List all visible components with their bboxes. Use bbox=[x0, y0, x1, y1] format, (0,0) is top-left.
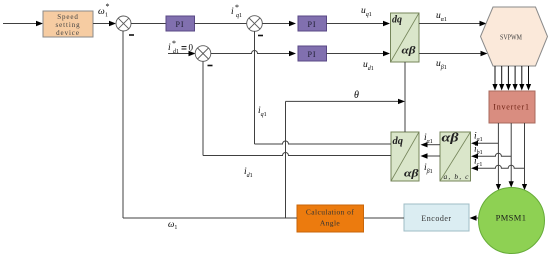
wire Encoder to Calculation of Angle bbox=[364, 217, 405, 219]
wire phase a from inverter to PMSM bbox=[496, 123, 501, 190]
label ia1 bbox=[474, 132, 483, 144]
wire ic1 tap to abc block with hops bbox=[471, 165, 525, 171]
svg-text:setting: setting bbox=[56, 21, 81, 29]
label i-beta1 bbox=[424, 163, 433, 175]
block: Encoder bbox=[404, 204, 469, 231]
wire speed feedback vertical to J1 bbox=[122, 31, 124, 218]
minus sign at J1 bbox=[129, 34, 134, 36]
wire J3 to PI3 with hop over iq1 feedback bbox=[211, 51, 296, 57]
wire ib1 tap to abc block with hop bbox=[471, 153, 511, 159]
svg-text:device: device bbox=[56, 29, 80, 37]
block: Speed setting device bbox=[43, 11, 93, 37]
label ua1 bbox=[436, 11, 447, 23]
label iq1 bbox=[258, 106, 267, 118]
minus sign at J3 bbox=[208, 65, 213, 67]
svg-text:Calculation of: Calculation of bbox=[306, 208, 354, 217]
label ib1 bbox=[474, 145, 483, 157]
wire input to speed setting device bbox=[3, 21, 43, 26]
svg-text:αβ: αβ bbox=[402, 46, 417, 57]
svg-text:0: 0 bbox=[189, 43, 194, 53]
wire PMSM to Encoder bbox=[470, 215, 479, 220]
label w1* bbox=[98, 2, 110, 19]
summing junction J3 bbox=[195, 46, 211, 62]
svg-text:PI: PI bbox=[307, 50, 316, 59]
wire i-beta between abc block and dq block bbox=[421, 153, 441, 158]
block: Calculation of Angle bbox=[297, 205, 364, 232]
wire theta riser from angle output bbox=[285, 101, 287, 218]
wire i-alpha between abc block and dq block bbox=[421, 142, 441, 147]
wire id1* input to junction J3 bbox=[168, 51, 196, 56]
label ub1 bbox=[436, 59, 447, 71]
wire PI2 to dq block (uq1) bbox=[327, 21, 391, 26]
wire speed feedback horizontal bbox=[123, 217, 297, 219]
label ic1 bbox=[474, 157, 482, 169]
wire id1 feedback horizontal with hop bbox=[203, 153, 391, 156]
svg-text:Speed: Speed bbox=[57, 13, 79, 21]
vertical theta wire between dq blocks bbox=[404, 62, 406, 132]
summing junction J2 bbox=[247, 16, 263, 32]
label i-alpha1 bbox=[424, 133, 433, 145]
block: PI controller 1 bbox=[166, 16, 195, 31]
label ud1 bbox=[363, 60, 374, 72]
wire phase b from inverter to PMSM bbox=[509, 123, 514, 188]
block: PI controller 3 bbox=[298, 46, 327, 61]
block: alpha-beta to dq current transform U2 bbox=[391, 132, 419, 181]
svg-text:dq: dq bbox=[392, 15, 402, 26]
minus sign at J2 bbox=[258, 35, 263, 37]
svg-text:αβ: αβ bbox=[404, 168, 419, 180]
wire J1 to PI1 bbox=[131, 23, 166, 25]
svg-text:θ: θ bbox=[354, 90, 359, 101]
block: PI controller 2 bbox=[298, 16, 327, 31]
block: Inverter1 bbox=[489, 91, 535, 123]
six gate signal arrows SVPWM to Inverter1 bbox=[492, 66, 531, 91]
wire J2 to PI2 bbox=[262, 21, 296, 26]
svg-text:dq: dq bbox=[393, 136, 404, 147]
label theta bbox=[354, 90, 359, 101]
wire ua1 to SVPWM bbox=[419, 21, 487, 26]
wire PI3 to dq block (ud1) bbox=[327, 51, 391, 56]
wire theta from angle riser to dq blocks bbox=[286, 99, 406, 104]
svg-text:Angle: Angle bbox=[320, 219, 341, 228]
label w1 feedback bbox=[168, 219, 177, 231]
block: dq to alpha-beta voltage transform U1 bbox=[391, 13, 420, 62]
wire ia1 tap to abc block bbox=[471, 141, 498, 146]
wire id1 feedback vertical to J3 bbox=[202, 61, 204, 155]
label id1 bbox=[244, 167, 253, 179]
label id1* = 0 bbox=[168, 39, 194, 55]
svg-text:Inverter1: Inverter1 bbox=[493, 103, 530, 112]
wire speed device to junction J1 bbox=[93, 21, 116, 26]
wire iq1 feedback horizontal with hop bbox=[255, 141, 392, 144]
summing junction J1 bbox=[116, 16, 131, 31]
wire iq1 feedback vertical to J2 bbox=[254, 31, 256, 144]
motor: PMSM1 bbox=[479, 188, 545, 254]
block: abc to alpha-beta current transform U3 bbox=[440, 131, 471, 182]
svg-text:αβ: αβ bbox=[442, 131, 460, 145]
svg-text:PMSM1: PMSM1 bbox=[496, 213, 527, 223]
label iq1* bbox=[231, 3, 242, 19]
label uq1 bbox=[361, 6, 372, 18]
wire phase c from inverter to PMSM bbox=[522, 123, 527, 190]
svg-text:SVPWM: SVPWM bbox=[500, 33, 522, 42]
svg-text:Encoder: Encoder bbox=[421, 214, 451, 223]
wire ub1 to SVPWM bbox=[419, 51, 488, 56]
block: SVPWM hexagon bbox=[481, 7, 548, 66]
svg-text:PI: PI bbox=[175, 20, 184, 29]
svg-text:PI: PI bbox=[307, 20, 316, 29]
wire PI1 to junction J2 bbox=[195, 23, 248, 25]
